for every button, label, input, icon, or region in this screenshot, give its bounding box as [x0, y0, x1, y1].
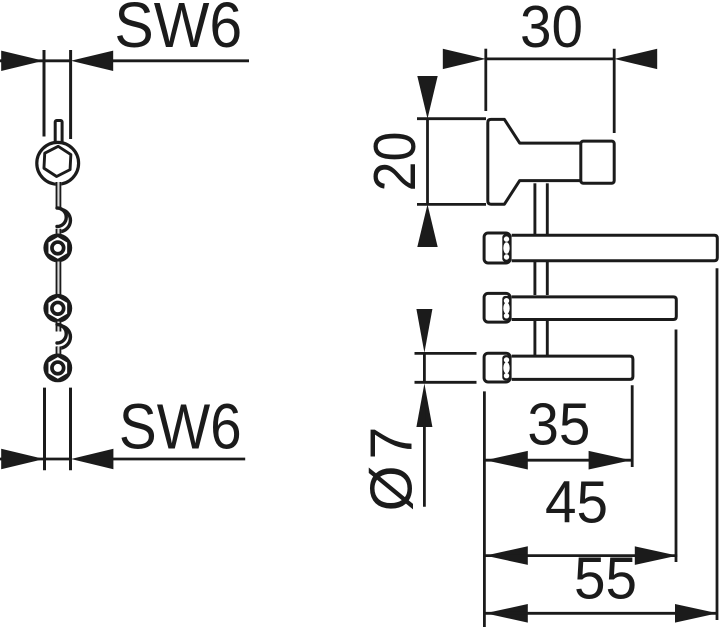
extension line arm3 bottom (dia7) — [415, 381, 477, 384]
wall plate outline — [488, 119, 581, 204]
extension line common left (35/45/55) — [483, 391, 486, 627]
screw: stem below nut2 — [56, 322, 62, 332]
svg-text:20: 20 — [362, 132, 428, 192]
pivot block — [581, 141, 614, 183]
arm 2 (45): bar — [512, 297, 677, 320]
dimension 30: dim line and arrows — [443, 49, 657, 69]
dimension SW6 bottom: dim line — [0, 449, 245, 469]
screw: hex socket — [44, 146, 71, 176]
svg-text:30: 30 — [520, 0, 583, 60]
extension line arm3 right (35) — [631, 385, 634, 467]
extension line bottom of plate (20) — [417, 203, 486, 206]
arm 2 (45): pivot cap — [484, 293, 510, 322]
arm 2 (45): pivot pin detail — [502, 296, 510, 321]
svg-text:SW6: SW6 — [114, 0, 242, 61]
post segment 3 (arm2 to arm3) — [535, 321, 547, 355]
dimension SW6 top: dim line — [0, 51, 249, 71]
svg-text:Ø7: Ø7 — [359, 421, 425, 512]
extension line right (bottom SW6) — [69, 388, 72, 471]
arm 3 (35): pivot cap — [484, 353, 510, 382]
screw: stem between nut1 and nut2 — [56, 262, 62, 296]
dimension 55 — [485, 604, 717, 623]
svg-text:55: 55 — [574, 546, 637, 612]
arm 1 (55): pivot cap — [484, 233, 510, 263]
extension line arm3 top (dia7) — [415, 352, 477, 355]
screw: nut 2 — [43, 294, 72, 323]
arm 3 (35): pivot pin detail — [502, 355, 510, 380]
screw: nut 3 — [43, 354, 72, 383]
dimension dia7: arrows and line — [416, 309, 432, 507]
extension line at wall (30 left) — [484, 49, 487, 111]
screw: stem above nut3 — [56, 347, 62, 355]
svg-text:35: 35 — [527, 392, 590, 458]
arm 3 (35): bar — [512, 356, 633, 379]
svg-text:SW6: SW6 — [119, 390, 242, 462]
arm 1 (55): bar — [512, 235, 718, 260]
screw: head circle — [37, 142, 79, 184]
extension line at block right (30 right) — [613, 49, 616, 133]
screw: stem above nut1 — [56, 229, 62, 234]
dimension 20: vertical dim line with outside arrows — [417, 76, 437, 247]
extension line left (bottom SW6) — [43, 388, 46, 471]
arm 1 (55): pivot pin detail — [502, 234, 510, 261]
extension line arm2 right (45) — [675, 330, 678, 563]
post segment 2 (arm1 to arm2) — [535, 262, 547, 296]
screw: stem below head — [56, 182, 62, 208]
extension line arm1 right (55) — [716, 268, 719, 620]
extension line left (top SW6) — [43, 50, 46, 137]
dimension 45 — [485, 546, 677, 565]
svg-text:45: 45 — [545, 470, 608, 536]
screw: top tab — [55, 121, 62, 146]
dimension 35 — [485, 451, 631, 470]
screw: break symbol 2 — [57, 325, 70, 349]
screw: break symbol 1 — [57, 208, 70, 232]
extension line top of plate (20) — [417, 117, 486, 120]
screw: nut 1 — [43, 234, 72, 263]
extension line right (top SW6) — [69, 50, 72, 139]
post segment 1 (block to arm1) — [535, 183, 547, 234]
